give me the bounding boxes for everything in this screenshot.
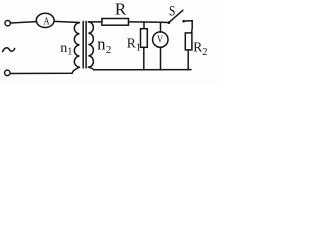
voltmeter V	[153, 32, 168, 47]
svg-text:V: V	[157, 35, 164, 46]
wire: switch to R2 corner	[184, 21, 193, 33]
primary bottom lead and bottom wire	[10, 67, 79, 73]
wire: ammeter to primary winding	[54, 21, 79, 22]
AC tilde symbol	[3, 48, 15, 52]
resistor R1 top lead	[143, 22, 145, 29]
svg-text:R: R	[127, 35, 136, 50]
secondary circuit bottom wire	[88, 67, 191, 70]
transformer primary winding n1	[74, 23, 79, 68]
svg-text:S: S	[169, 4, 175, 20]
wire: terminal to ammeter	[10, 22, 36, 23]
svg-text:n: n	[97, 34, 105, 53]
svg-text:n: n	[60, 41, 67, 56]
transformer core	[82, 21, 84, 68]
svg-text:A: A	[43, 16, 50, 27]
svg-text:R: R	[193, 39, 202, 54]
AC source terminal (top-left)	[5, 21, 10, 26]
switch S blade	[169, 10, 183, 22]
svg-text:1: 1	[136, 42, 141, 53]
switch S right contact	[182, 20, 185, 23]
voltmeter top lead	[160, 22, 162, 32]
svg-text:2: 2	[202, 47, 207, 58]
resistor R	[102, 19, 129, 26]
resistor R1 bottom lead	[143, 47, 145, 69]
ammeter A	[36, 13, 54, 27]
switch S left contact	[167, 21, 170, 24]
resistor R1	[141, 29, 148, 48]
resistor R2	[185, 33, 192, 50]
wire: R to switch with junctions	[129, 21, 169, 24]
voltmeter bottom lead	[160, 47, 162, 69]
svg-text:1: 1	[67, 47, 72, 58]
svg-text:R: R	[115, 0, 127, 18]
transformer secondary winding n2	[88, 22, 93, 67]
wire: secondary top to resistor R	[88, 21, 102, 23]
svg-text:2: 2	[106, 44, 112, 56]
AC source terminal (bottom-left)	[5, 70, 11, 76]
resistor R2 bottom lead	[187, 50, 189, 70]
